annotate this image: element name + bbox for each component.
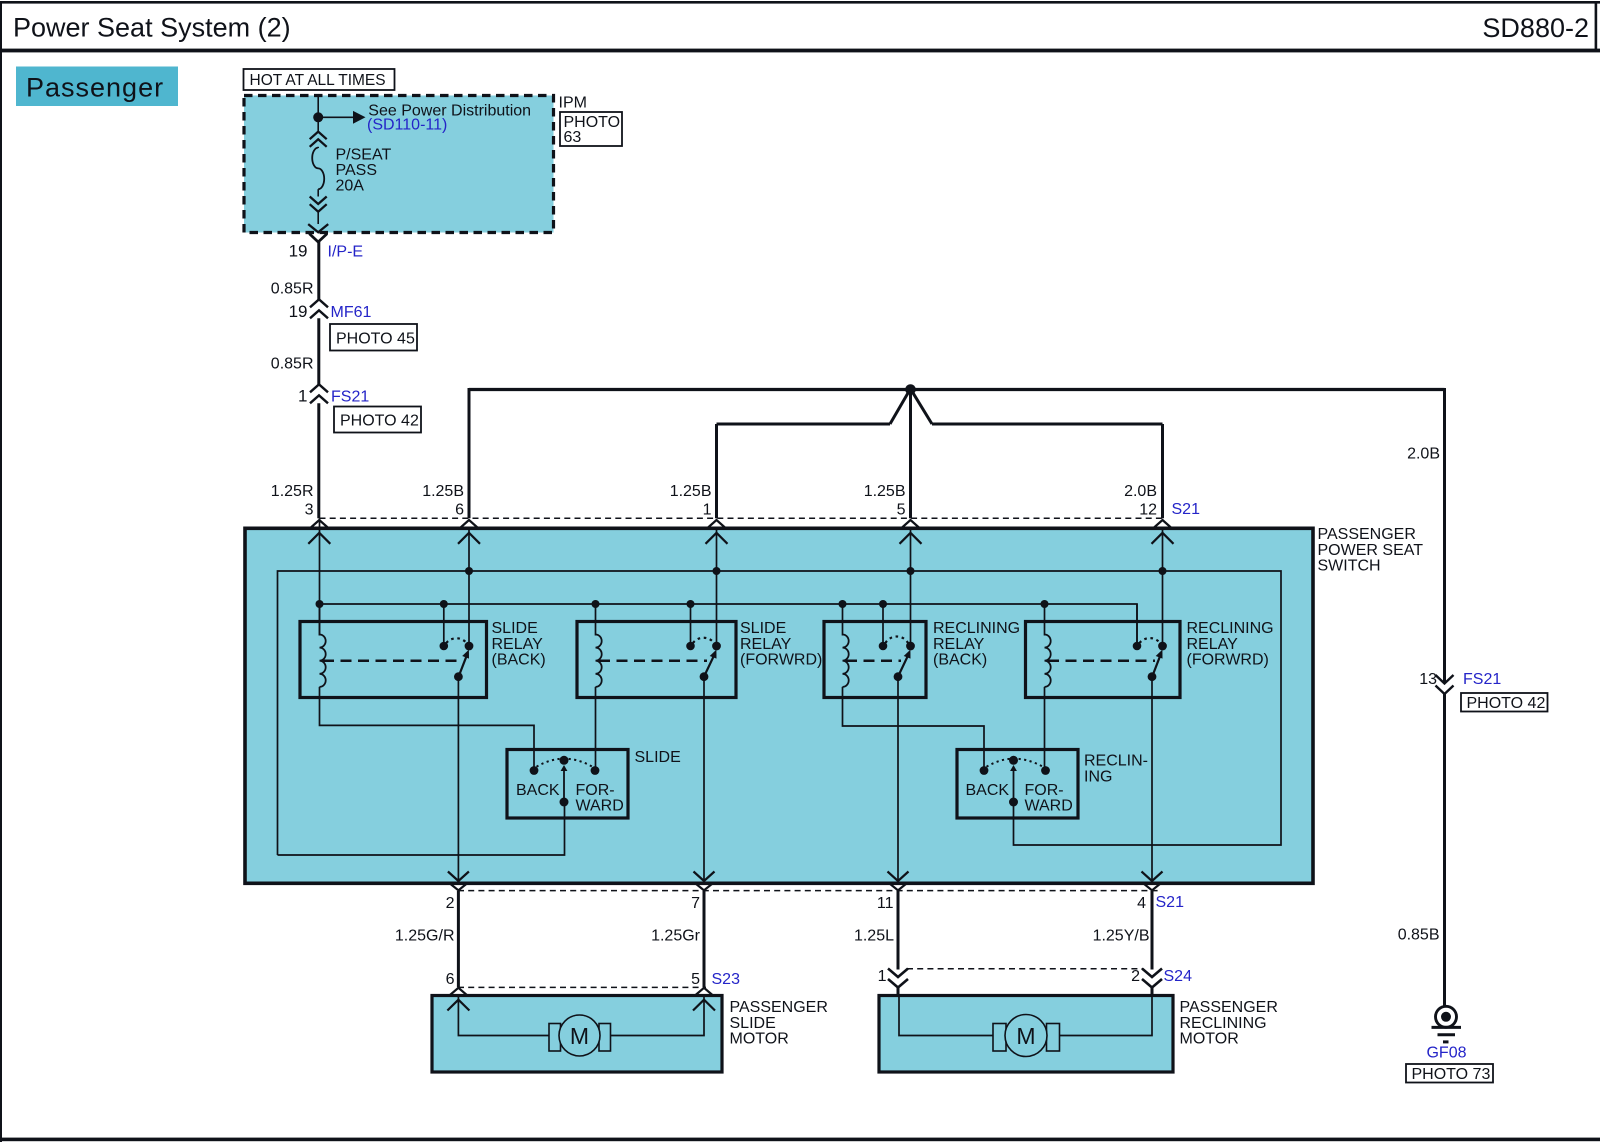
connector S21 pin 3 symbol: [310, 520, 328, 528]
svg-text:20A: 20A: [336, 178, 365, 195]
relay K2 movable contact arm: [705, 653, 715, 675]
connector S21 pin 5 inner symbol: [900, 533, 922, 544]
connector S21 pin 6 symbol: [460, 520, 478, 528]
passenger reclining motor box: [879, 996, 1173, 1073]
svg-text:1.25G/R: 1.25G/R: [395, 928, 455, 945]
wire slide relay (forwrd) coil to switch FORWARD contact: [595, 687, 597, 767]
wire to FS21 pin 13, 2.0B: [1443, 388, 1446, 683]
relay K4 normally-closed contact node: [1158, 642, 1167, 651]
wire FS21 pin 13 to ground, 0.85B: [1443, 694, 1446, 1007]
page top border: [0, 1, 1600, 4]
wire FS21 to switch pin 3, 1.25R: [317, 403, 320, 518]
svg-text:FOR-: FOR-: [576, 782, 615, 799]
svg-text:SLIDE: SLIDE: [740, 620, 786, 637]
connector S23 dashed line: [458, 986, 706, 988]
svg-text:I/P-E: I/P-E: [328, 244, 364, 261]
slide selector switch box: [507, 750, 628, 819]
svg-text:PASS: PASS: [336, 162, 378, 179]
junction node on internal power bus: [440, 600, 448, 608]
svg-text:1.25Gr: 1.25Gr: [651, 928, 701, 945]
connector S21 bottom pin symbol: [694, 872, 715, 882]
svg-text:7: 7: [691, 895, 700, 912]
header rule: [0, 49, 1600, 53]
reclining switch common node: [1009, 798, 1018, 807]
svg-text:BACK: BACK: [516, 782, 560, 799]
svg-text:PHOTO 45: PHOTO 45: [336, 331, 415, 348]
relay K4 reclining relay (forwrd) box: [1026, 622, 1181, 698]
svg-text:5: 5: [897, 502, 906, 519]
svg-text:(FORWRD): (FORWRD): [740, 652, 822, 669]
svg-text:PHOTO 73: PHOTO 73: [1412, 1066, 1491, 1083]
svg-text:MOTOR: MOTOR: [730, 1031, 789, 1048]
connector S21 pin 6 inner symbol: [458, 533, 480, 544]
wire fuse to IPM block edge: [317, 212, 319, 224]
relay K4 normally-open contact node: [1133, 642, 1142, 651]
svg-text:S21: S21: [1156, 894, 1185, 911]
svg-text:1.25B: 1.25B: [422, 483, 464, 500]
wire S24 pin 1 to reclining motor: [897, 987, 900, 997]
junction node on internal power bus: [879, 600, 887, 608]
connector S24 dashed line: [907, 968, 1143, 970]
connector S24 pin 1 symbol: [888, 969, 908, 978]
connector S21 pin 1 symbol: [708, 520, 726, 528]
wire drop to pin 1, 1.25B: [715, 424, 718, 518]
junction node on internal ground bus: [907, 567, 915, 575]
svg-text:WARD: WARD: [576, 798, 624, 815]
reclining switch FORWARD contact node: [1041, 766, 1050, 775]
connector S23 pin 5 inner symbol: [693, 1000, 715, 1011]
ground GF08 symbol: [1436, 1006, 1457, 1027]
svg-text:BACK: BACK: [966, 782, 1010, 799]
svg-text:0.85R: 0.85R: [271, 356, 314, 373]
connector S21 pin 12 symbol: [1154, 520, 1172, 528]
slide switch common node: [560, 798, 569, 807]
connector S21 bottom pin symbol: [1142, 872, 1163, 882]
svg-text:2: 2: [1131, 968, 1140, 985]
wire reclining relay (back) common to pin 11: [897, 678, 899, 880]
junction node on internal ground bus: [713, 567, 721, 575]
connector FS21 pin 13 symbol: [1436, 675, 1454, 684]
wire drop to pin 12, 2.0B: [1161, 424, 1164, 518]
lower bus wire right segment: [932, 423, 1163, 426]
svg-text:RECLINING: RECLINING: [1187, 620, 1274, 637]
relay K2 actuation dashed link: [599, 660, 707, 663]
slide switch actuator arrow: [563, 770, 565, 798]
connector S21 pin 3 inner symbol: [308, 533, 330, 544]
svg-text:POWER SEAT: POWER SEAT: [1318, 542, 1424, 559]
svg-text:IPM: IPM: [559, 95, 587, 112]
connector S21 dashed line: [320, 517, 1167, 519]
relay K4 contact travel dotted arc: [1140, 638, 1161, 643]
svg-text:RECLINING: RECLINING: [933, 620, 1020, 637]
svg-text:PASSENGER: PASSENGER: [1180, 999, 1278, 1016]
svg-text:S21: S21: [1172, 501, 1201, 518]
svg-text:1.25Y/B: 1.25Y/B: [1093, 928, 1150, 945]
svg-text:WARD: WARD: [1025, 798, 1073, 815]
wire drop to pin 5, 1.25B: [909, 390, 912, 519]
svg-text:2.0B: 2.0B: [1407, 446, 1440, 463]
svg-text:FS21: FS21: [331, 389, 369, 406]
connector S24 pin 2 symbol: [1142, 969, 1162, 978]
reclining switch travel dotted arc: [987, 759, 1044, 767]
junction node on internal power bus: [687, 600, 695, 608]
relay K4 coil: [1045, 635, 1051, 687]
svg-text:RELAY: RELAY: [1187, 636, 1239, 653]
svg-text:SLIDE: SLIDE: [635, 749, 681, 766]
wire pin 11 to S24, 1.25L: [897, 891, 900, 970]
wire MF61 to FS21, 0.85R: [317, 318, 320, 384]
svg-text:1.25B: 1.25B: [864, 483, 906, 500]
connector S21 pin 1 inner symbol: [706, 533, 728, 544]
wire reclining relay (forwrd) coil to switch FORWARD contact: [1044, 687, 1046, 767]
junction node on internal ground bus: [465, 567, 473, 575]
svg-text:12: 12: [1139, 502, 1157, 519]
junction node on internal power bus: [316, 600, 324, 608]
label box: HOT AT ALL TIMES: [244, 69, 395, 90]
svg-text:2.0B: 2.0B: [1124, 483, 1157, 500]
ground bus horizontal wire: [469, 388, 1445, 391]
passenger power seat switch box: [245, 528, 1313, 883]
slide motor brush right: [599, 1024, 611, 1052]
slide switch travel dotted arc: [537, 759, 593, 767]
svg-text:RELAY: RELAY: [492, 636, 544, 653]
svg-text:13: 13: [1419, 671, 1437, 688]
relay K3 movable contact arm: [899, 653, 909, 675]
Passenger section label: [16, 67, 178, 107]
connector S21 bottom pin symbol: [448, 872, 469, 882]
internal ground bus wire to slide switch: [278, 806, 565, 855]
wire reclining relay (back) coil to switch BACK contact: [843, 687, 985, 767]
wire pin 6 to slide relay (back) contact: [468, 529, 470, 646]
relay K3 common contact node: [894, 672, 903, 681]
wire pin 5 to reclining relay (back) contact: [910, 529, 912, 646]
label box PHOTO 42: [334, 407, 421, 433]
svg-text:(BACK): (BACK): [933, 652, 987, 669]
svg-text:M: M: [1016, 1023, 1035, 1049]
relay K4 coil riser wire: [1044, 604, 1046, 636]
relay K2 common contact node: [700, 672, 709, 681]
slide motor internal wire right: [611, 997, 705, 1036]
connector S21 bottom dashed line: [458, 890, 1160, 892]
wire I/P-E to MF61, 0.85R: [317, 242, 320, 300]
wire reclining relay (forwrd) common to pin 4: [1151, 678, 1153, 880]
reclining motor internal wire right: [1060, 997, 1153, 1036]
relay K3 normally-open contact riser wire: [882, 604, 884, 643]
label box PHOTO 63: [560, 112, 622, 146]
connector S21 bottom pin symbol: [888, 872, 909, 882]
lower bus wire left segment: [717, 423, 891, 426]
connector I/P-E pin 19 symbol: [309, 234, 327, 242]
svg-text:19: 19: [289, 242, 308, 261]
svg-text:11: 11: [877, 895, 894, 912]
svg-text:Passenger: Passenger: [26, 73, 164, 103]
reclining motor M armature: [1005, 1015, 1047, 1057]
connector S23 pin 6 symbol: [449, 988, 467, 996]
relay K1 slide relay (back) box: [300, 622, 487, 698]
svg-text:FS21: FS21: [1463, 671, 1501, 688]
relay K1 common contact node: [454, 672, 463, 681]
svg-text:S24: S24: [1164, 968, 1193, 985]
junction node in IPM block: [313, 112, 323, 122]
svg-text:6: 6: [446, 971, 455, 988]
slide switch FORWARD contact node: [591, 766, 600, 775]
diagonal wire to junction right: [912, 391, 932, 424]
svg-text:0.85R: 0.85R: [271, 281, 314, 298]
slide motor M armature: [559, 1015, 600, 1056]
svg-text:ING: ING: [1084, 768, 1112, 785]
relay K4 common contact node: [1148, 672, 1157, 681]
relay K4 actuation dashed link: [1048, 660, 1155, 663]
relay K2 coil riser wire: [595, 604, 597, 636]
relay K2 normally-open contact node: [686, 642, 695, 651]
relay K1 movable contact arm: [459, 653, 467, 675]
svg-text:6: 6: [455, 502, 464, 519]
reclining motor brush left: [993, 1024, 1006, 1052]
connector S23 pin 5 symbol: [695, 988, 713, 996]
svg-text:RELAY: RELAY: [933, 636, 985, 653]
relay K3 normally-closed contact node: [906, 642, 915, 651]
wire pin 12 to reclining relay (forwrd) contact: [1162, 529, 1164, 646]
reclining switch actuator arrow: [1013, 770, 1015, 798]
svg-text:RELAY: RELAY: [740, 636, 792, 653]
svg-text:1.25R: 1.25R: [271, 483, 314, 500]
svg-text:(BACK): (BACK): [492, 652, 546, 669]
wire junction to fuse: [317, 117, 319, 131]
relay K2 contact travel dotted arc: [693, 638, 714, 643]
relay K3 contact travel dotted arc: [886, 637, 909, 643]
svg-text:PHOTO 42: PHOTO 42: [340, 413, 419, 430]
label box PHOTO 45: [330, 324, 417, 351]
svg-text:63: 63: [564, 129, 582, 146]
svg-text:GF08: GF08: [1426, 1045, 1466, 1062]
relay K2 coil: [596, 635, 602, 687]
relay K1 actuation dashed link: [323, 660, 461, 663]
svg-text:1.25L: 1.25L: [854, 928, 894, 945]
wire from hot feed to junction: [317, 96, 319, 118]
relay K4 movable contact arm: [1153, 653, 1161, 675]
IPM power block (dashed): [244, 96, 554, 233]
junction node on internal power bus: [592, 600, 600, 608]
reclining switch center contact node: [1009, 756, 1018, 765]
junction node on internal power bus: [839, 600, 847, 608]
connector S21 pin 12 inner symbol: [1152, 533, 1174, 544]
internal power bus wire from pin 3: [320, 604, 1138, 643]
wire pin 4 to S24, 1.25Y/B: [1151, 891, 1154, 970]
relay K1 normally-closed contact node: [465, 642, 474, 651]
slide motor internal wire left: [458, 997, 549, 1036]
label box PHOTO 73: [1406, 1064, 1493, 1083]
svg-text:SD880-2: SD880-2: [1482, 13, 1589, 43]
svg-text:P/SEAT: P/SEAT: [336, 147, 392, 164]
connector FS21 pin 1 symbol: [310, 384, 328, 392]
reclining switch BACK contact node: [980, 766, 989, 775]
svg-text:RECLINING: RECLINING: [1180, 1015, 1267, 1032]
reclining selector switch box: [957, 750, 1078, 819]
svg-text:SLIDE: SLIDE: [730, 1015, 776, 1032]
reclining motor internal wire left: [899, 997, 993, 1036]
diagonal wire to junction left: [890, 391, 909, 424]
relay K1 normally-open contact riser wire: [443, 604, 445, 643]
wire slide relay (forwrd) common to pin 7: [703, 678, 705, 880]
reclining motor brush right: [1047, 1024, 1060, 1052]
connector S21 pin 5 symbol: [902, 520, 920, 528]
svg-text:PASSENGER: PASSENGER: [1318, 526, 1416, 543]
wire pin 2 to slide motor, 1.25G/R: [457, 891, 460, 987]
connector S23 pin 6 inner symbol: [447, 1000, 469, 1011]
relay K1 coil: [320, 635, 326, 687]
arrow to See Power Distribution: [318, 116, 353, 118]
wire pin 1 to slide relay (forwrd) contact: [716, 529, 718, 646]
svg-text:Power Seat System (2): Power Seat System (2): [13, 13, 291, 43]
passenger slide motor box: [432, 996, 722, 1073]
relay K2 normally-closed contact node: [712, 642, 721, 651]
wire S24 pin 2 to reclining motor: [1151, 987, 1154, 997]
wire slide relay (back) common to pin 2: [457, 678, 459, 880]
relay K2 slide relay (forwrd) box: [577, 622, 736, 698]
relay K3 reclining relay (back) box: [824, 622, 926, 698]
page bottom border: [0, 1138, 1600, 1142]
svg-text:PHOTO 42: PHOTO 42: [1467, 695, 1546, 712]
svg-text:0.85B: 0.85B: [1398, 927, 1440, 944]
svg-text:3: 3: [305, 502, 314, 519]
svg-text:PASSENGER: PASSENGER: [730, 999, 828, 1016]
svg-text:(SD110-11): (SD110-11): [367, 117, 447, 134]
svg-text:1: 1: [703, 502, 712, 519]
label box PHOTO 42: [1461, 693, 1548, 712]
junction node on ground bus: [905, 384, 916, 395]
wire slide relay (back) coil to switch BACK contact: [320, 687, 535, 767]
svg-text:M: M: [570, 1023, 589, 1049]
svg-text:S23: S23: [712, 971, 741, 988]
slide motor brush left: [549, 1024, 561, 1052]
svg-text:1: 1: [298, 387, 307, 406]
svg-text:1.25B: 1.25B: [670, 483, 712, 500]
svg-text:1: 1: [878, 968, 887, 985]
wire pin 7 to slide motor, 1.25Gr: [703, 891, 706, 987]
svg-text:HOT AT ALL TIMES: HOT AT ALL TIMES: [250, 72, 386, 89]
svg-text:SWITCH: SWITCH: [1318, 558, 1381, 575]
svg-text:4: 4: [1137, 895, 1146, 912]
page left border: [0, 1, 2, 1142]
junction node on internal power bus: [1041, 600, 1049, 608]
slide switch center contact node: [560, 756, 569, 765]
internal ground bus wire: [278, 571, 1282, 855]
connector MF61 pin 19 symbol: [310, 299, 328, 307]
fuse F P/SEAT PASS 20A symbol: [310, 132, 327, 140]
wire drop to pin 6, 1.25B: [468, 388, 471, 518]
relay K3 normally-open contact node: [879, 642, 888, 651]
svg-text:RECLIN-: RECLIN-: [1084, 753, 1148, 770]
relay K1 contact travel dotted arc: [446, 638, 466, 643]
wire pin 3 to slide relay (back) coil: [319, 518, 321, 635]
relay K4 normally-open contact riser wire: [1136, 604, 1138, 643]
junction node on internal ground bus: [1159, 567, 1167, 575]
relay K3 coil riser wire: [842, 604, 844, 636]
svg-text:(FORWRD): (FORWRD): [1187, 652, 1269, 669]
relay K3 actuation dashed link: [846, 660, 901, 663]
relay K1 normally-open contact node: [440, 642, 449, 651]
relay K1 coil riser wire: [319, 604, 321, 636]
svg-text:FOR-: FOR-: [1025, 782, 1064, 799]
svg-text:MF61: MF61: [331, 304, 372, 321]
svg-text:2: 2: [446, 895, 455, 912]
svg-text:MOTOR: MOTOR: [1180, 1031, 1239, 1048]
svg-text:19: 19: [289, 302, 308, 321]
svg-text:SLIDE: SLIDE: [492, 620, 538, 637]
relay K2 normally-open contact riser wire: [690, 604, 692, 643]
svg-text:5: 5: [691, 971, 700, 988]
relay K3 coil: [843, 635, 849, 687]
header right border: [1595, 1, 1598, 52]
slide switch BACK contact node: [530, 766, 539, 775]
